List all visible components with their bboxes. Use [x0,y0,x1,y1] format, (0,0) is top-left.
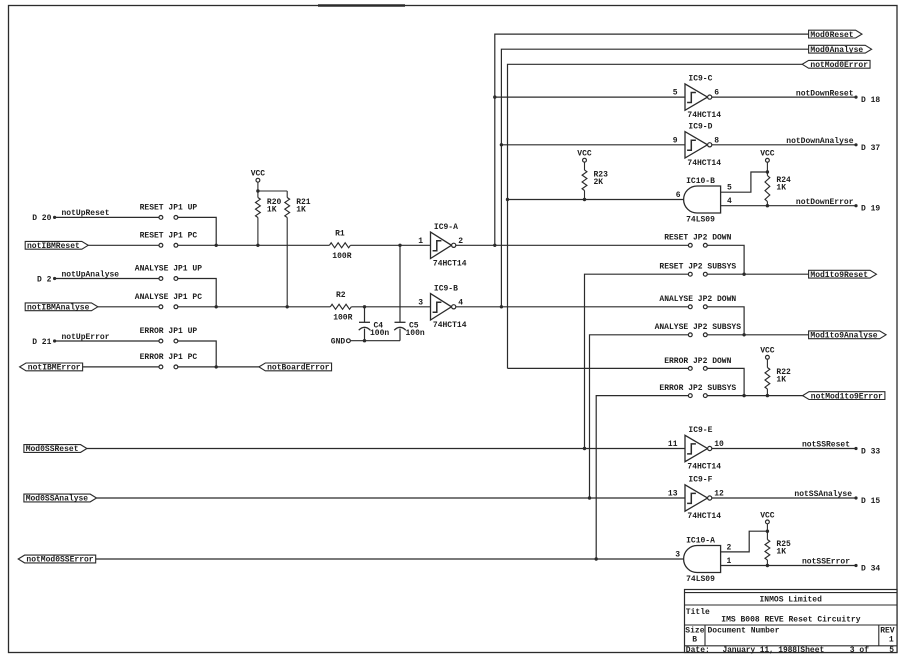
wire jumper UP to PC row [178,217,216,245]
wire Mod0Reset net vertical+top [495,34,809,245]
wire IC9-F out to D15 [712,497,856,499]
junction C5 tap [398,244,401,247]
svg-text:IC10-A: IC10-A [686,536,715,545]
svg-text:12: 12 [714,490,724,499]
svg-text:notIBMAnalyse: notIBMAnalyse [27,304,90,313]
svg-text:VCC: VCC [760,150,775,159]
svg-text:notUpReset: notUpReset [62,209,110,218]
wire notIBMReset to jumper [88,244,159,246]
junction UP/PC error [215,365,218,368]
svg-text:R2: R2 [336,291,346,300]
junction R21 bottom [286,305,289,308]
resistor R22 [765,368,791,390]
svg-text:RESET JP2 DOWN: RESET JP2 DOWN [664,234,731,243]
junction R24 bottom [766,204,769,207]
svg-text:January 11, 1988: January 11, 1988 [723,646,798,655]
svg-text:1K: 1K [267,205,277,214]
svg-text:Date:: Date: [686,646,710,655]
svg-text:notMod0Error: notMod0Error [810,61,868,70]
svg-text:D 33: D 33 [861,448,880,457]
pin dot D20 [53,216,56,219]
svg-text:Mod0SSReset: Mod0SSReset [26,445,79,454]
wire subsys to Mod1to9Reset [707,273,808,275]
svg-text:1K: 1K [776,375,786,384]
svg-text:D 15: D 15 [861,497,880,506]
svg-text:1: 1 [418,237,423,246]
svg-text:Size: Size [685,627,704,636]
svg-text:VCC: VCC [760,511,775,520]
svg-text:2K: 2K [594,178,604,187]
svg-text:1K: 1K [296,205,306,214]
wire [286,191,288,198]
svg-text:74HCT14: 74HCT14 [687,111,721,120]
wire notMod0Error to IC10-B pin6 [508,199,684,201]
svg-text:R1: R1 [335,230,345,239]
wire GND row [350,340,400,342]
wire R21 to analyse row [286,218,288,307]
junction R22 bottom [766,394,769,397]
capacitor C5 [394,245,425,340]
svg-text:ANALYSE JP2 DOWN: ANALYSE JP2 DOWN [659,295,736,304]
pin dot D21 [53,339,56,342]
jumper ANALYSE JP1 PC [135,293,202,309]
junction notMod0Error tap [506,198,509,201]
junction C4 tap [363,305,366,308]
svg-text:1: 1 [889,635,894,644]
resistor R20 [256,198,282,218]
wire jumper to notBoardError [178,366,265,368]
svg-text:6: 6 [714,89,719,98]
net label Mod0Reset [809,30,862,40]
svg-text:100R: 100R [332,252,351,261]
net label notIBMAnalyse [25,303,98,313]
wire notMod0Error net vertical+top [508,64,809,368]
jumper ERROR JP1 UP [140,327,198,343]
junction vB end [588,496,591,499]
junction v1 end [493,244,496,247]
wire IC9-C out to D18 [712,96,856,98]
svg-text:IC9-C: IC9-C [688,75,712,84]
junction UP/PC analyse [215,305,218,308]
svg-text:notUpAnalyse: notUpAnalyse [62,270,120,279]
svg-text:D 2: D 2 [37,275,52,284]
svg-text:100n: 100n [370,329,389,338]
power VCC for R22 [760,347,775,359]
net label notMod1to9Error [803,392,885,402]
svg-text:IC9-B: IC9-B [434,284,458,293]
net label notMod0Error [802,60,870,70]
svg-text:1: 1 [727,557,732,566]
junction R23 bottom [583,198,586,201]
svg-text:ANALYSE JP1 PC: ANALYSE JP1 PC [135,293,202,302]
net label notIBMReset [25,241,88,251]
junction v2 end [500,305,503,308]
svg-text:D 20: D 20 [32,214,51,223]
wire IC10-A pin1 notSSError to D34 [721,565,856,567]
wire [766,531,768,539]
junction R25 bottom [766,564,769,567]
wire Mod0SSReset to IC9-E [87,448,685,450]
wire Mod0Analyse to IC9-D pin9 [501,144,685,146]
wire error down to subsys [707,368,744,395]
svg-text:VCC: VCC [251,170,266,179]
wire VCC stub [257,182,259,191]
svg-text:IMS B008 REVE Reset Circuitry: IMS B008 REVE Reset Circuitry [721,615,860,624]
wire VCC to R22 [766,359,768,367]
wire [257,191,259,198]
svg-text:74HCT14: 74HCT14 [687,463,721,472]
wire reset down to subsys [707,245,744,274]
svg-text:11: 11 [668,440,678,449]
svg-text:notUpError: notUpError [62,333,110,342]
wire jumper PC to R1 [178,244,330,246]
junction error subsys [742,394,745,397]
resistor R21 [285,198,311,218]
svg-text:4: 4 [458,298,463,307]
svg-text:5: 5 [889,646,894,655]
svg-text:3 of: 3 of [850,646,869,655]
jumper ERROR JP1 PC [140,353,198,369]
pin dot D15 [854,496,857,499]
svg-text:100n: 100n [406,329,425,338]
op-amp U IC9-D [673,122,722,167]
svg-text:VCC: VCC [760,347,775,356]
jumper RESET JP1 UP [140,204,198,220]
svg-text:RESET JP1 PC: RESET JP1 PC [140,232,198,241]
svg-text:notIBMError: notIBMError [28,364,81,373]
wire notIBMAnalyse to jumper [98,306,159,308]
wire notIBMError to jumper [83,366,159,368]
svg-text:ANALYSE JP1 UP: ANALYSE JP1 UP [135,265,202,274]
wire D2 to jumper [55,278,159,280]
wire IC9-E out to D33 [712,448,856,450]
power VCC for R20/R21 [251,170,266,183]
wire subsys to Mod1to9Analyse [707,334,808,336]
svg-text:D 34: D 34 [861,565,880,574]
svg-text:D 19: D 19 [861,205,880,214]
AND gate U IC10-B [684,177,721,225]
wire R1 to IC9-A pin1 [350,244,430,246]
wire VCC link to R21 [258,190,287,192]
wire Mod0SSAnalyse up to ANALYSE SUBSYS jumper [590,335,689,498]
wire R22 to error subsys [766,389,768,396]
svg-text:74HCT14: 74HCT14 [433,259,467,268]
wire IC9-B out / ANALYSE JP2 DOWN row [456,306,689,308]
wire Mod0SSReset up to RESET SUBSYS jumper [585,274,689,448]
wire IC10-A pin2 to VCC [721,531,768,552]
svg-text:5: 5 [673,89,678,98]
wire Mod0Reset to IC9-C pin5 [495,96,685,98]
svg-text:ERROR JP1 UP: ERROR JP1 UP [140,327,198,336]
svg-text:1K: 1K [776,547,786,556]
op-amp U IC9-B [418,284,467,329]
svg-text:notSSAnalyse: notSSAnalyse [794,490,852,499]
jumper ERROR JP2 SUBSYS [659,384,736,398]
resistor R24 [765,176,791,202]
svg-text:notDownReset: notDownReset [796,89,854,98]
svg-text:Mod0SSAnalyse: Mod0SSAnalyse [26,495,89,504]
svg-text:2: 2 [727,543,732,552]
svg-text:notDownError: notDownError [796,198,854,207]
svg-text:notMod0SSError: notMod0SSError [26,556,93,565]
op-amp U IC9-A [418,223,467,268]
svg-text:4: 4 [727,197,732,206]
wire jumper UP to PC row analyse [178,279,216,307]
svg-text:13: 13 [668,490,678,499]
junction vA end [583,447,586,450]
svg-text:2: 2 [458,237,463,246]
wire VCC to corner [766,524,768,531]
jumper ANALYSE JP2 SUBSYS [655,323,742,336]
wire notMod0SSError to IC10-A pin3 [96,558,684,560]
junction reset subsys [742,273,745,276]
wire Mod0Analyse net vertical+top [501,49,808,307]
svg-text:74HCT14: 74HCT14 [687,159,721,168]
svg-text:GND: GND [331,337,346,346]
wire jumper UP to PC row error [178,341,216,367]
resistor R25 [765,540,791,561]
svg-text:ERROR JP1 PC: ERROR JP1 PC [140,353,198,362]
jumper ANALYSE JP1 UP [135,265,202,281]
AND gate U IC10-A [684,536,721,584]
jumper RESET JP2 SUBSYS [659,263,736,277]
pin dot D34 [854,564,857,567]
op-amp U IC9-E [668,426,724,471]
svg-text:notMod1to9Error: notMod1to9Error [811,392,883,401]
wire Mod0SSAnalyse to IC9-F [97,497,685,499]
wire R25 to notSSError [766,560,768,566]
junction VCC link [256,189,259,192]
pin dot D33 [854,447,857,450]
svg-text:74HCT14: 74HCT14 [433,321,467,330]
wire analyse down to subsys [707,307,744,335]
svg-text:3: 3 [675,551,680,560]
resistor R1 [329,230,351,261]
pin dot D18 [854,96,857,99]
net label Mod0Analyse [809,45,872,55]
terminal GND circle [347,339,351,343]
power VCC for R25 [760,511,775,524]
wire D21 to jumper [55,340,159,342]
wire R23 to error-down row [584,191,586,200]
svg-text:notDownAnalyse: notDownAnalyse [786,137,853,146]
junction Mod0Analyse tap [500,143,503,146]
jumper RESET JP1 PC [140,232,198,248]
wire IC10-B pin5 to VCC [721,172,768,192]
svg-text:INMOS Limited: INMOS Limited [759,596,822,605]
svg-text:ANALYSE JP2 SUBSYS: ANALYSE JP2 SUBSYS [655,323,742,332]
wire R24 to notDownError [766,202,768,206]
svg-text:Mod0Analyse: Mod0Analyse [810,46,863,55]
wire ERROR JP2 DOWN row [508,367,689,369]
resistor R2 [330,291,352,322]
wire jumper to R2 [178,306,330,308]
svg-text:notIBMReset: notIBMReset [27,242,80,251]
pin dot D37 [854,143,857,146]
wire IC10-B pin4 notDownError to D19 [721,205,856,207]
svg-text:IC9-A: IC9-A [434,223,458,232]
net label Mod1to9Analyse [809,331,886,341]
op-amp U IC9-C [673,75,722,120]
svg-text:notSSError: notSSError [802,558,850,567]
svg-text:100R: 100R [333,313,352,322]
junction R20 bottom [256,244,259,247]
svg-text:74LS09: 74LS09 [686,575,715,584]
pin dot D2 [53,277,56,280]
svg-text:IC9-D: IC9-D [688,122,712,131]
svg-text:Mod1to9Analyse: Mod1to9Analyse [810,332,877,341]
svg-text:74HCT14: 74HCT14 [687,512,721,521]
svg-text:Mod0Reset: Mod0Reset [810,31,853,40]
power VCC for R24 [760,150,775,163]
svg-text:Mod1to9Reset: Mod1to9Reset [810,271,868,280]
resistor R23 [582,170,608,191]
wire IC9-A out / RESET JP2 DOWN row [456,244,689,246]
wire VCC to R24 corner [766,162,768,172]
pin dot D19 [854,204,857,207]
svg-text:1K: 1K [776,183,786,192]
svg-text:notBoardError: notBoardError [267,364,330,373]
svg-text:9: 9 [673,136,678,145]
junction pin5-VCC [766,170,769,173]
svg-text:74LS09: 74LS09 [686,216,715,225]
svg-text:IC9-E: IC9-E [688,426,712,435]
wire D20 to jumper [55,216,159,218]
svg-text:B: B [692,635,697,644]
wire R2 to IC9-B pin3 [351,306,430,308]
svg-text:Title: Title [686,608,710,617]
svg-text:RESET JP2 SUBSYS: RESET JP2 SUBSYS [659,263,736,272]
junction UP/PC reset [215,244,218,247]
svg-text:notSSReset: notSSReset [802,441,850,450]
title block [685,590,898,655]
svg-text:RESET JP1 UP: RESET JP1 UP [140,204,198,213]
svg-text:D 37: D 37 [861,144,880,153]
junction analyse subsys [742,333,745,336]
svg-text:6: 6 [676,191,681,200]
wire [766,172,768,176]
svg-text:5: 5 [727,184,732,193]
svg-text:ERROR JP2 SUBSYS: ERROR JP2 SUBSYS [659,384,736,393]
junction C4 to GND [363,339,366,342]
svg-text:VCC: VCC [577,150,592,159]
op-amp U IC9-F [668,476,724,521]
net label notMod0SSError [18,555,95,565]
net label Mod0SSReset [24,445,87,455]
jumper ANALYSE JP2 DOWN [659,295,736,308]
svg-text:IC10-B: IC10-B [686,177,715,186]
net label notIBMError [20,363,83,373]
svg-text:10: 10 [714,440,724,449]
junction vC end [595,557,598,560]
wire notMod0SSError up to ERROR SUBSYS jumper [596,396,688,559]
net label Mod1to9Reset [809,270,877,280]
svg-text:8: 8 [714,136,719,145]
junction pin2-VCC [766,530,769,533]
power VCC for R23 [577,150,592,163]
svg-text:D 21: D 21 [32,338,51,347]
svg-text:Document Number: Document Number [708,627,780,636]
svg-text:IC9-F: IC9-F [688,476,712,485]
svg-text:Sheet: Sheet [800,646,824,655]
svg-text:REV: REV [880,627,895,636]
junction Mod0Reset tap [493,95,496,98]
jumper RESET JP2 DOWN [664,234,731,248]
capacitor C4 [359,307,390,341]
net label notBoardError [259,363,332,373]
wire R20 to reset row [257,218,259,246]
svg-text:3: 3 [418,298,423,307]
wire IC9-D out to D37 [712,144,856,146]
jumper ERROR JP2 DOWN [664,357,731,371]
wire VCC to R23 [584,162,586,170]
svg-text:D 18: D 18 [861,96,880,105]
svg-text:ERROR JP2 DOWN: ERROR JP2 DOWN [664,357,731,366]
wire subsys to notMod1to9Error [707,395,809,397]
net label Mod0SSAnalyse [24,494,97,504]
